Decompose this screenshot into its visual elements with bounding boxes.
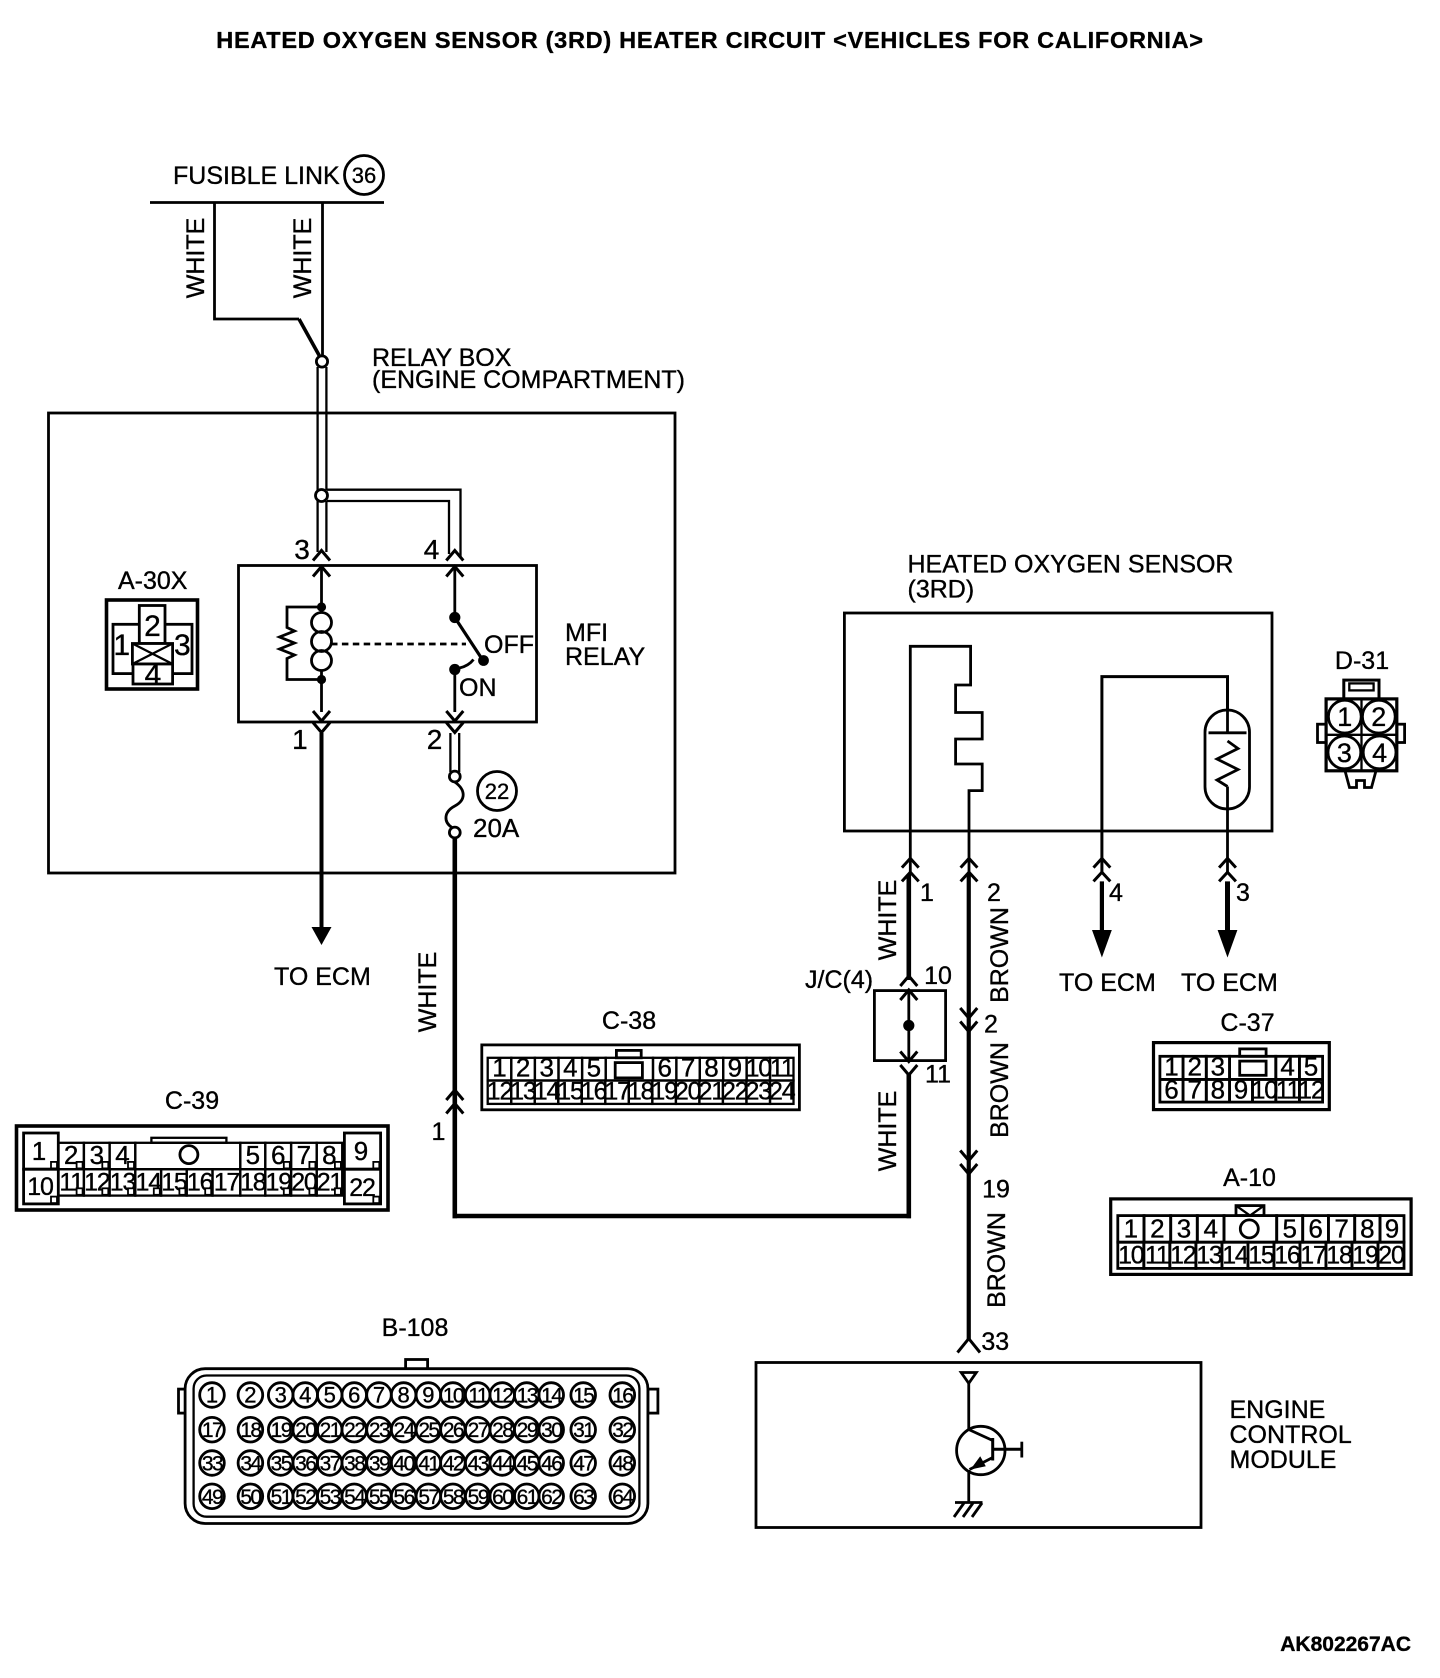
svg-text:A-10: A-10 [1223,1164,1276,1192]
relay ON contact hook [460,660,474,669]
wire sensor pin3 to ECM arrow [1225,881,1230,932]
wire WHITE up to J/C(4) [906,1074,911,1218]
MFI relay pin 4 connector chevrons [446,551,463,561]
heater capsule [1205,710,1250,809]
svg-text:BROWN: BROWN [983,1212,1011,1308]
svg-text:64: 64 [612,1486,634,1509]
D-31 pin circles [1328,700,1361,733]
svg-text:B-108: B-108 [382,1314,449,1342]
wire sensor pin4 to ECM arrow [1100,881,1104,932]
double wire into relay box [316,367,318,490]
svg-text:33: 33 [202,1453,223,1476]
svg-text:20A: 20A [473,813,520,843]
connector C-39 outline [17,1126,389,1210]
relay switch arm end dot [478,655,489,666]
svg-text:4: 4 [424,534,440,565]
svg-text:26: 26 [443,1419,464,1442]
svg-text:24: 24 [394,1419,416,1442]
MFI relay pin 2 connector chevrons [446,711,463,721]
A-10 circle key [1240,1220,1258,1238]
C-39 tall cell 10 [24,1169,59,1204]
svg-text:2: 2 [987,879,1001,907]
svg-text:50: 50 [240,1486,261,1509]
svg-text:RELAY: RELAY [565,643,645,671]
svg-text:HEATED OXYGEN SENSOR (3RD) HEA: HEATED OXYGEN SENSOR (3RD) HEATER CIRCUI… [216,27,1203,53]
C-38 pin 1 chevrons on wire [446,1090,463,1100]
transistor emitter wire [967,1470,970,1503]
svg-text:27: 27 [468,1419,489,1442]
D-31 side tabs [1318,724,1327,742]
svg-text:61: 61 [517,1486,538,1509]
sensor pin 3 chevrons [1219,858,1236,867]
wire pin1 down to TO ECM arrow [320,733,324,929]
svg-text:10: 10 [1118,1242,1144,1270]
svg-text:17: 17 [1300,1242,1326,1270]
svg-text:16: 16 [1274,1242,1300,1270]
svg-text:12: 12 [487,1078,513,1106]
C-39 tall cell 22 [344,1169,380,1204]
relay ON contact dot [449,664,460,675]
svg-text:55: 55 [369,1486,390,1509]
svg-text:9: 9 [1234,1075,1248,1105]
B-108 top tab [406,1360,428,1370]
svg-text:C-37: C-37 [1220,1009,1274,1037]
svg-text:44: 44 [492,1453,514,1476]
fuse top terminal circle [449,771,460,782]
sensor zirconia element [910,646,982,874]
svg-text:OFF: OFF [484,631,534,659]
svg-text:1: 1 [206,1383,218,1408]
svg-text:6: 6 [1164,1075,1178,1105]
C-38 key slot [615,1063,642,1078]
ECM input triangle [961,1373,976,1384]
svg-text:43: 43 [468,1453,489,1476]
C-38 key tab [616,1050,641,1057]
svg-text:41: 41 [418,1453,439,1476]
C-39 cell notches [77,1162,83,1169]
svg-text:58: 58 [443,1486,464,1509]
svg-text:21: 21 [698,1078,724,1106]
svg-text:6: 6 [1308,1214,1322,1244]
wire ON contact to pin 2 [453,670,456,713]
junction terminal circle inside relay box [316,490,328,502]
svg-text:36: 36 [295,1453,316,1476]
heated oxygen sensor outline [844,613,1272,831]
svg-text:3: 3 [294,534,310,565]
svg-text:47: 47 [573,1453,594,1476]
svg-text:34: 34 [240,1453,262,1476]
svg-text:17: 17 [604,1078,630,1106]
A-10 pin 19 chevrons on brown wire [960,1151,977,1161]
svg-text:BROWN: BROWN [986,907,1014,1003]
B-108 right tab [648,1389,658,1413]
fuse bottom terminal circle [449,827,460,838]
B-108 pin circles [200,1383,225,1408]
fuse 22 element (s-curve) [446,782,463,828]
svg-text:56: 56 [394,1486,415,1509]
svg-text:23: 23 [369,1419,390,1442]
relay coil wire top [320,567,323,612]
svg-text:ON: ON [459,674,497,702]
C-39 key bar [151,1138,226,1143]
wire WHITE from fuse down [452,873,457,1218]
svg-text:38: 38 [344,1453,365,1476]
svg-text:63: 63 [573,1486,594,1509]
svg-text:TO ECM: TO ECM [1181,969,1278,997]
svg-text:WHITE: WHITE [874,880,902,961]
svg-text:51: 51 [271,1486,292,1509]
connector D-31 body [1326,699,1397,771]
svg-text:3: 3 [174,629,191,662]
svg-text:15: 15 [573,1385,594,1408]
svg-text:37: 37 [320,1453,341,1476]
C-37 key slot [1240,1061,1266,1075]
svg-text:10: 10 [1251,1077,1277,1105]
connector B-108 outer shell [185,1369,648,1524]
svg-text:60: 60 [492,1486,513,1509]
wire BROWN sensor pin2 to ECM [967,874,971,1340]
svg-text:A-30X: A-30X [118,567,188,595]
svg-text:18: 18 [240,1169,266,1197]
svg-text:8: 8 [1360,1214,1374,1244]
svg-text:5: 5 [1282,1214,1296,1244]
fuse number circle 22 [478,772,517,811]
svg-text:9: 9 [422,1383,434,1408]
svg-text:11: 11 [925,1061,951,1089]
svg-text:6: 6 [348,1383,360,1408]
svg-text:20: 20 [675,1078,701,1106]
J/C junction dot [903,1020,914,1031]
D-31 bottom feet [1345,771,1376,788]
sensor pin 1 chevrons [902,858,919,867]
svg-text:53: 53 [320,1486,341,1509]
heater resistor zigzag [1217,741,1238,787]
wire fuse to bottom of relay box [452,838,457,873]
wire white left drop [215,203,300,320]
svg-text:4: 4 [1372,738,1387,768]
svg-text:29: 29 [517,1419,538,1442]
svg-text:1: 1 [32,1136,46,1166]
double wire down to pin 3 [316,501,318,552]
svg-text:C-38: C-38 [602,1007,656,1035]
relay switch top contact dot [449,612,460,623]
svg-text:CONTROL: CONTROL [1230,1421,1352,1449]
connector C-37 outline [1154,1043,1330,1110]
svg-text:46: 46 [541,1453,562,1476]
svg-text:7: 7 [373,1383,385,1408]
J/C pin 11 chevrons [900,1052,917,1062]
transistor base lead [993,1448,1023,1451]
svg-text:3: 3 [1236,879,1250,907]
svg-text:2: 2 [984,1011,998,1039]
svg-text:54: 54 [344,1486,366,1509]
fusible link number circle 36 [345,156,384,195]
C-39 tall cell 1 [24,1133,59,1169]
svg-text:3: 3 [275,1383,287,1408]
C-37 pin 2 chevrons on brown wire [960,1008,977,1018]
svg-text:15: 15 [557,1078,583,1106]
relay coil wire bottom [320,670,323,712]
svg-text:WHITE: WHITE [182,218,210,299]
C-39 small cells top row [58,1143,84,1169]
svg-text:(ENGINE COMPARTMENT): (ENGINE COMPARTMENT) [372,366,685,394]
svg-text:19: 19 [1352,1242,1378,1270]
double wire branch to pin 4 [327,490,461,558]
MFI relay pin 1 connector chevrons [313,711,330,721]
relay switch arm (OFF position) [455,618,483,661]
svg-text:52: 52 [295,1486,316,1509]
svg-text:MODULE: MODULE [1230,1446,1337,1474]
svg-text:3: 3 [1337,738,1352,768]
svg-text:10: 10 [924,962,952,990]
svg-text:8: 8 [397,1383,409,1408]
svg-text:7: 7 [1187,1075,1201,1105]
svg-text:21: 21 [320,1419,341,1442]
relay coil bottom junction dot [317,675,326,684]
svg-text:18: 18 [628,1078,654,1106]
svg-text:18: 18 [1326,1242,1352,1270]
svg-text:12: 12 [492,1385,513,1408]
svg-text:13: 13 [517,1385,538,1408]
svg-text:7: 7 [1334,1214,1348,1244]
connector A-30X outline [107,600,198,689]
connector A-10 outline [1111,1199,1411,1275]
wire triangle to transistor [967,1383,970,1431]
svg-text:5: 5 [324,1383,336,1408]
svg-text:4: 4 [299,1383,311,1408]
A-10 cells [1118,1216,1144,1243]
relay actuation dashed link [331,643,466,646]
D-31 top tab [1344,680,1379,699]
svg-text:AK802267AC: AK802267AC [1280,1633,1411,1656]
C-37 key tab [1240,1049,1266,1056]
svg-text:45: 45 [517,1453,538,1476]
svg-text:WHITE: WHITE [289,218,317,299]
svg-text:13: 13 [510,1078,536,1106]
svg-text:20: 20 [1378,1242,1404,1270]
C-38 cell grid [488,1058,512,1081]
svg-text:4: 4 [1203,1214,1217,1244]
relay switch common wire from pin 4 [453,567,456,618]
svg-text:19: 19 [982,1176,1010,1204]
B-108 pin 33 fork terminal [958,1339,981,1353]
svg-text:10: 10 [443,1385,464,1408]
svg-text:42: 42 [443,1453,464,1476]
sensor heater feed wire [1102,677,1228,874]
svg-text:62: 62 [541,1486,562,1509]
svg-text:16: 16 [581,1078,607,1106]
svg-text:22: 22 [485,779,509,804]
svg-text:10: 10 [27,1173,53,1201]
A-30X pin 4 cavity [133,664,173,684]
svg-text:8: 8 [1211,1075,1225,1105]
connector B-108 inner shell [194,1376,640,1517]
fusible link bus wire [150,201,384,204]
wire WHITE horizontal run [453,1214,912,1219]
svg-text:1: 1 [292,724,308,755]
svg-text:19: 19 [271,1419,292,1442]
svg-text:32: 32 [612,1419,633,1442]
svg-text:22: 22 [349,1174,375,1202]
svg-text:WHITE: WHITE [414,952,442,1033]
transistor Q (ECM driver) [957,1426,1005,1474]
svg-text:BROWN: BROWN [986,1042,1014,1138]
svg-text:2: 2 [427,724,443,755]
svg-text:48: 48 [612,1453,633,1476]
relay coil top junction dot [317,602,326,611]
TO ECM arrowhead (pin 3) [1218,930,1238,958]
B-108 left tab [179,1389,186,1413]
C-37 cells [1160,1056,1183,1079]
svg-text:23: 23 [745,1078,771,1106]
svg-text:1: 1 [1124,1214,1138,1244]
C-39 tall cell 9 [344,1133,380,1169]
svg-text:31: 31 [573,1419,594,1442]
svg-text:J/C(4): J/C(4) [805,966,873,994]
svg-text:14: 14 [541,1385,563,1408]
svg-text:13: 13 [1196,1242,1222,1270]
connector C-38 outline [482,1045,800,1110]
svg-text:FUSIBLE LINK: FUSIBLE LINK [173,162,340,190]
engine control module outline [756,1363,1201,1528]
A-10 envelope key [1236,1206,1264,1216]
svg-text:33: 33 [981,1328,1009,1356]
wire WHITE sensor pin1 to J/C [906,874,911,980]
svg-text:TO ECM: TO ECM [274,963,371,991]
J/C pin 10 chevrons [900,976,917,986]
svg-text:5: 5 [246,1140,260,1170]
svg-text:1: 1 [432,1118,446,1146]
A-30X vertical cavity (pin 2) [139,606,165,644]
wire white right drop [321,203,324,356]
svg-text:HEATED OXYGEN SENSOR: HEATED OXYGEN SENSOR [908,551,1234,579]
svg-text:35: 35 [271,1453,292,1476]
svg-text:19: 19 [651,1078,677,1106]
wire white left diagonal [299,319,320,356]
svg-text:14: 14 [1222,1242,1249,1270]
C-39 small cells bottom row [58,1169,84,1195]
svg-text:(3RD): (3RD) [908,576,975,604]
svg-text:1: 1 [920,879,934,907]
svg-text:16: 16 [612,1385,633,1408]
double wire pin 2 to fuse [449,733,451,772]
heater wire to pin 3 [1226,787,1229,875]
svg-text:17: 17 [202,1419,223,1442]
svg-text:ENGINE: ENGINE [1230,1396,1326,1424]
J/C internal wire [907,991,910,1061]
svg-text:40: 40 [394,1453,415,1476]
heater capsule electrode bar [1209,731,1247,734]
svg-text:17: 17 [214,1169,240,1197]
svg-text:28: 28 [492,1419,513,1442]
svg-text:D-31: D-31 [1335,647,1389,675]
MFI relay outline [239,566,537,723]
sensor pin 2 chevrons [961,858,978,867]
svg-text:11: 11 [468,1385,488,1408]
junction terminal circle [316,356,327,367]
svg-text:3: 3 [1177,1214,1191,1244]
svg-text:11: 11 [1276,1077,1300,1105]
svg-text:4: 4 [145,659,162,692]
svg-text:WHITE: WHITE [874,1091,902,1172]
svg-text:2: 2 [144,610,161,643]
svg-text:49: 49 [202,1486,223,1509]
svg-text:2: 2 [1371,702,1386,732]
relay coil L1 [312,613,332,633]
svg-text:59: 59 [468,1486,489,1509]
sensor pin 4 chevrons [1094,858,1111,867]
heater capsule inner wire [1226,710,1229,733]
svg-text:1: 1 [1337,702,1352,732]
svg-text:25: 25 [418,1419,439,1442]
svg-text:22: 22 [722,1078,748,1106]
svg-text:4: 4 [1109,879,1123,907]
junction connector J/C(4) box [874,991,945,1061]
svg-text:15: 15 [1248,1242,1274,1270]
ground [955,1501,983,1504]
svg-text:9: 9 [1385,1214,1399,1244]
svg-text:22: 22 [344,1419,365,1442]
svg-text:30: 30 [541,1419,562,1442]
svg-text:C-39: C-39 [165,1087,219,1115]
C-39 circle key cell [135,1143,240,1169]
relay box (engine compartment) outline [49,413,676,873]
svg-text:2: 2 [1150,1214,1164,1244]
svg-text:2: 2 [244,1383,256,1408]
svg-text:18: 18 [240,1419,261,1442]
TO ECM arrowhead (left) [312,927,332,945]
TO ECM arrowhead (pin 4) [1092,930,1112,958]
svg-text:11: 11 [1145,1242,1169,1270]
svg-text:1: 1 [113,629,130,662]
svg-text:TO ECM: TO ECM [1059,969,1156,997]
svg-text:12: 12 [1298,1077,1324,1105]
relay resistor (parallel with coil) [280,607,322,680]
MFI relay pin 3 connector chevrons [313,551,330,561]
A-30X key box with X [132,644,172,665]
svg-text:36: 36 [352,163,376,188]
A-30X horizontal cavity [113,624,192,673]
svg-text:12: 12 [1170,1242,1196,1270]
svg-text:9: 9 [354,1136,368,1166]
svg-text:57: 57 [418,1486,439,1509]
svg-text:39: 39 [369,1453,390,1476]
svg-text:24: 24 [769,1078,796,1106]
svg-text:20: 20 [295,1419,316,1442]
